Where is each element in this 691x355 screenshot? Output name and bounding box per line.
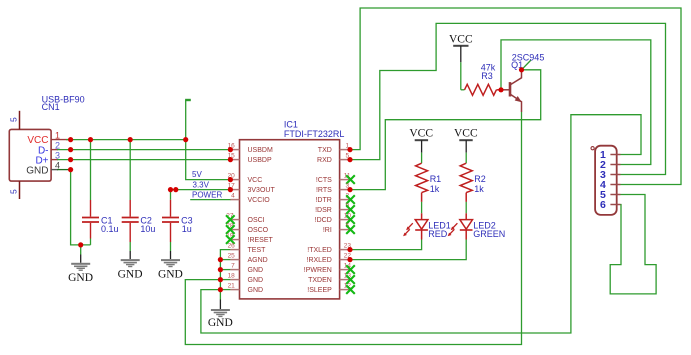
transistor Q1 2SC945 (501, 52, 544, 112)
IC1 pin 28 OSCO with no-connect X (226, 223, 269, 235)
svg-text:1: 1 (55, 131, 60, 141)
IC1 pin 3 !RTS (316, 183, 350, 195)
svg-text:GREEN: GREEN (473, 229, 505, 239)
capacitor C3 (162, 190, 193, 251)
wire 3.3V net C3 to IC 3V3OUT pin (171, 189, 231, 191)
CN1 shield pin 5 top (9, 111, 20, 130)
CN1 pin 2 stub (51, 141, 60, 151)
IC1 pin 25 AGND (228, 253, 268, 265)
svg-text:!DCD: !DCD (315, 217, 332, 224)
svg-text:1k: 1k (474, 184, 484, 194)
svg-text:FTDI-FT232RL: FTDI-FT232RL (284, 129, 345, 139)
power symbol VCC above R2 (454, 128, 478, 164)
wire TXD net IC pin1 to header pin 4 (350, 8, 681, 185)
svg-text:R3: R3 (481, 71, 493, 81)
CN1 pin 3 stub (51, 151, 60, 161)
IC1 pin 4 VCCIO (230, 193, 270, 205)
resistor R1 1k (416, 163, 442, 213)
CN1 pin 4 stub (51, 161, 60, 171)
svg-text:GND: GND (68, 272, 93, 284)
svg-text:18: 18 (228, 273, 236, 280)
svg-text:OSCO: OSCO (248, 227, 269, 234)
wire POWER net to IC VCCIO pin (190, 199, 231, 201)
header pin 6 (600, 199, 621, 211)
resistor R3 47k (461, 63, 501, 96)
svg-text:26: 26 (228, 243, 236, 250)
svg-text:5: 5 (9, 117, 19, 122)
wire CN1 GND pin down to C1 ground (57, 170, 91, 245)
IC1 pin 14 !PWREN with no-connect X (304, 263, 355, 275)
svg-text:!SLEEP: !SLEEP (307, 287, 332, 294)
capacitor C1 (82, 140, 119, 245)
IC1 pin 2 !DTR with no-connect X (315, 193, 354, 205)
svg-text:3V3OUT: 3V3OUT (248, 187, 276, 194)
svg-text:GND: GND (158, 268, 183, 280)
resistor R2 1k (460, 163, 486, 213)
svg-text:RED: RED (428, 229, 448, 239)
svg-text:!TXLED: !TXLED (307, 247, 332, 254)
wire AGND pin to bus (220, 259, 230, 261)
wire !RTS net IC pin3 to Q1 collector (350, 70, 541, 190)
connector header SV1 (right, pins 1-6) body (595, 146, 617, 215)
IC1 pin 27 OSCI with no-connect X (226, 213, 265, 225)
svg-text:1u: 1u (182, 224, 192, 234)
IC1 pin 7 GND (230, 263, 263, 275)
svg-text:TEST: TEST (248, 247, 267, 254)
header pin 4 (600, 179, 621, 191)
svg-text:!CTS: !CTS (316, 177, 332, 184)
IC1 pin 16 USBDM (228, 143, 273, 155)
header pin 5 (600, 189, 621, 201)
svg-text:VCC: VCC (248, 177, 263, 184)
svg-text:AGND: AGND (248, 257, 268, 264)
power symbol VCC above R3 (449, 34, 473, 90)
LED LED2 GREEN (448, 213, 506, 239)
svg-text:USBDP: USBDP (248, 157, 272, 164)
wire GND21 branch to right header pin 1 (outer bottom rail) (201, 115, 641, 333)
svg-text:5V: 5V (192, 170, 202, 179)
IC1 pin 6 !RI with no-connect X (323, 223, 355, 235)
svg-text:VCC: VCC (449, 34, 473, 46)
wire VCC net from CN1 pin1 (66, 139, 186, 141)
IC1 pin 10 !DCD with no-connect X (315, 213, 355, 225)
wire Q1 base node to header pin 2 (501, 40, 651, 165)
svg-text:VCC: VCC (409, 128, 433, 140)
IC1 pin 5 RXD (317, 153, 350, 165)
svg-text:VCCIO: VCCIO (248, 197, 271, 204)
svg-text:!RTS: !RTS (316, 187, 332, 194)
wire GND18 branch to Q1 emitter (bottom rail) (185, 112, 521, 345)
svg-text:RXD: RXD (317, 157, 332, 164)
IC1 pin 17 3V3OUT (228, 183, 276, 195)
svg-text:GND: GND (248, 277, 264, 284)
ground symbol GND under C2 (118, 251, 143, 280)
svg-text:POWER: POWER (192, 191, 222, 200)
svg-text:3.3V: 3.3V (193, 180, 210, 189)
svg-text:R2: R2 (474, 174, 486, 184)
wire VCC net vertical riser with stub hook (185, 100, 191, 140)
IC1 pin 11 !CTS with no-connect X (316, 173, 355, 185)
svg-text:GND: GND (118, 268, 143, 280)
IC1 pin 18 GND (228, 273, 263, 285)
wire D- net CN1 pin2 to IC USBDM (57, 149, 230, 151)
header pin 3 (600, 169, 621, 181)
IC1 pin 15 USBDP (228, 153, 272, 165)
op-amp-style IC U1 body: IC1 FTDI-FT232RL (240, 140, 340, 299)
IC1 pin 26 TEST (228, 243, 267, 255)
svg-text:GND: GND (208, 317, 233, 329)
connector CN1 USB-BF90 body (9, 129, 51, 181)
IC1 pin 23 !TXLED (307, 243, 351, 255)
svg-text:GND: GND (26, 166, 48, 177)
svg-text:21: 21 (228, 283, 236, 290)
power symbol VCC above R1 (409, 128, 433, 164)
header pin 1 (600, 149, 621, 161)
wire !TXLED net IC pin23 to LED1 cathode (350, 240, 422, 250)
svg-text:5: 5 (9, 189, 19, 194)
svg-text:10u: 10u (140, 224, 155, 234)
ground symbol GND under C1 (68, 245, 93, 284)
svg-text:CN1: CN1 (42, 102, 60, 112)
ground symbol GND under C3 (158, 251, 183, 280)
wire GND7 pin to bus (220, 269, 230, 271)
svg-text:USBDM: USBDM (248, 147, 273, 154)
header pin 2 (600, 159, 621, 171)
IC1 pin 20 VCC (228, 173, 263, 185)
wire header pin6 to pin5 loop (610, 195, 656, 294)
svg-text:!DSR: !DSR (315, 207, 332, 214)
CN1 pin 1 stub (51, 131, 68, 141)
svg-text:VCC: VCC (454, 128, 478, 140)
svg-text:25: 25 (228, 253, 236, 260)
svg-text:GND: GND (248, 287, 264, 294)
svg-text:TXDEN: TXDEN (308, 277, 332, 284)
svg-text:R1: R1 (430, 174, 442, 184)
wire !RXLED net IC pin22 to LED2 cathode (350, 240, 466, 260)
svg-text:!PWREN: !PWREN (304, 267, 332, 274)
IC1 pin 12 !SLEEP with no-connect X (307, 283, 355, 295)
IC1 pin 9 !DSR with no-connect X (315, 203, 355, 215)
wire D+ net CN1 pin3 to IC USBDP (57, 159, 230, 161)
ground symbol GND under IC1 (208, 300, 233, 330)
svg-text:1k: 1k (430, 184, 440, 194)
wire TEST/AGND/GND pins bus down to ground (220, 250, 230, 300)
wire RXD net IC pin5 to header pin 3 (350, 23, 666, 174)
svg-text:4: 4 (231, 193, 235, 200)
svg-text:GND: GND (248, 267, 264, 274)
wire GND21 pin to bus (220, 289, 230, 291)
IC1 pin 19 !RESET with no-connect X (226, 233, 274, 245)
svg-text:TXD: TXD (318, 147, 332, 154)
wire diagonal stub at Q1 collector (522, 60, 532, 70)
wire GND18 pin to bus (220, 279, 230, 281)
svg-text:OSCI: OSCI (248, 217, 265, 224)
IC1 pin 21 GND (228, 283, 263, 295)
svg-text:6: 6 (600, 199, 606, 211)
svg-text:!DTR: !DTR (315, 197, 331, 204)
svg-text:0.1u: 0.1u (101, 224, 119, 234)
wire 5V net to IC VCC pin (186, 140, 231, 180)
svg-text:7: 7 (231, 263, 235, 270)
capacitor C2 (122, 140, 156, 251)
CN1 shield pin 5 bottom (9, 181, 20, 199)
IC1 pin 22 !RXLED (307, 253, 352, 265)
svg-text:!RXLED: !RXLED (307, 257, 332, 264)
IC1 pin 1 TXD (318, 143, 350, 155)
IC1 pin 13 TXDEN with no-connect X (308, 273, 355, 285)
header polarity circle (591, 147, 594, 150)
svg-text:!RESET: !RESET (248, 237, 274, 244)
svg-text:!RI: !RI (323, 227, 332, 234)
LED LED1 RED (403, 213, 451, 239)
